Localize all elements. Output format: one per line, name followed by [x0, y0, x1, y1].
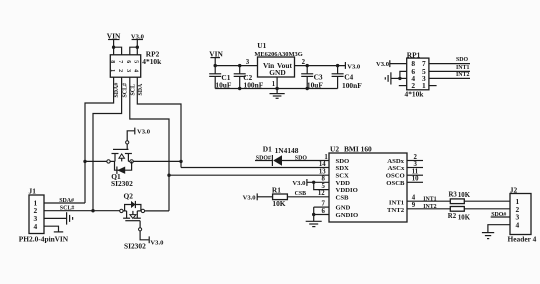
power V3.0 (Q2 gate): [149, 236, 164, 246]
svg-text:INT2: INT2: [456, 72, 469, 78]
svg-text:SDO#: SDO#: [491, 212, 506, 218]
wire Q2 gate to V3.0: [139, 221, 149, 240]
svg-text:BMI 160: BMI 160: [344, 144, 372, 153]
wire RP2 pin2 to SCL# vertical: [93, 77, 122, 211]
wire V3.0 to RP1 pin8: [390, 63, 407, 65]
connector J1 PH2.0-4pin: [29, 186, 45, 233]
svg-text:TNT2: TNT2: [387, 207, 405, 214]
resistor R3 10K: [449, 192, 471, 204]
svg-text:6: 6: [125, 60, 131, 63]
capacitor C3: [301, 66, 323, 90]
wire Q1 gate to V3.0: [126, 131, 135, 150]
svg-text:3: 3: [414, 161, 418, 168]
wire RP2 pin4 to SDA vertical: [137, 77, 181, 167]
svg-text:1: 1: [109, 69, 115, 72]
svg-text:VDDIO: VDDIO: [336, 187, 358, 194]
wire J2 pin4 to ground: [488, 225, 510, 233]
svg-text:10K: 10K: [272, 199, 285, 208]
ground (U2): [306, 221, 322, 226]
svg-text:J1: J1: [29, 186, 37, 195]
junction dot C2 bottom: [238, 87, 241, 90]
svg-text:V3.0: V3.0: [376, 61, 390, 68]
svg-text:ASCx: ASCx: [388, 165, 405, 172]
svg-text:V3.0: V3.0: [150, 239, 164, 246]
junction node SDA / Q1 drain: [179, 160, 182, 163]
wire SDX line: [181, 167, 329, 169]
svg-text:4: 4: [412, 195, 416, 202]
svg-text:INT1: INT1: [389, 200, 404, 207]
wire R2 to J2 pin2: [464, 208, 510, 210]
svg-text:7: 7: [322, 201, 326, 208]
svg-text:SCL#: SCL#: [60, 206, 74, 212]
svg-text:V3.0: V3.0: [347, 63, 361, 70]
svg-text:2: 2: [117, 69, 123, 72]
regulator U1 ME6206A30M3G: [254, 41, 302, 77]
junction dot C4 top: [336, 64, 339, 67]
svg-text:V3.0: V3.0: [243, 195, 257, 202]
junction dot C2 top: [238, 64, 241, 67]
svg-text:3: 3: [246, 59, 250, 66]
wire RP1 pin5 INT1: [429, 70, 470, 72]
svg-text:14: 14: [319, 161, 326, 168]
wire R3 to J2 pin1: [464, 200, 510, 202]
svg-text:SDO: SDO: [456, 57, 469, 63]
svg-text:4*10k: 4*10k: [142, 57, 162, 66]
wire Q1 drain: [133, 160, 181, 162]
power VIN (J1 pin4, downward): [54, 232, 69, 243]
svg-text:ASDx: ASDx: [387, 158, 404, 165]
svg-text:10: 10: [412, 176, 419, 183]
svg-text:9: 9: [412, 202, 416, 209]
svg-text:SDA#: SDA#: [114, 83, 120, 98]
power VIN (RP2 top): [107, 31, 121, 54]
diode D1 1N4148: [263, 144, 299, 166]
svg-text:VDD: VDD: [336, 180, 351, 187]
junction dot C3 top: [306, 64, 309, 67]
svg-text:SCX: SCX: [336, 173, 350, 180]
svg-text:SDA#: SDA#: [59, 198, 74, 204]
svg-text:10uF: 10uF: [307, 81, 324, 90]
IC U2 BMI160: [329, 144, 407, 222]
svg-text:V3.0: V3.0: [137, 129, 151, 136]
wire RP1 pin3 INT2: [429, 77, 470, 79]
svg-text:U2: U2: [330, 144, 339, 153]
wire D1 to U2 SDO: [282, 160, 329, 162]
svg-text:SDA: SDA: [138, 83, 144, 96]
svg-text:11: 11: [412, 169, 419, 176]
svg-text:3: 3: [125, 69, 131, 72]
capacitor C2: [234, 66, 264, 90]
svg-text:4*10k: 4*10k: [405, 90, 425, 99]
power V3.0 (Q1 gate): [135, 128, 151, 136]
wire VDDIO: [314, 182, 329, 189]
svg-text:5: 5: [133, 60, 139, 63]
wire J1 pin1 SDA#: [44, 202, 85, 204]
svg-text:8: 8: [109, 60, 115, 63]
junction dot RP1 gnd: [398, 77, 401, 80]
wire U2 pin4 INT1 to R3: [407, 200, 450, 202]
svg-text:SCL#: SCL#: [122, 83, 128, 97]
wire U1 pin2 to V3.0: [295, 65, 346, 67]
wire U2 ground stem: [313, 215, 315, 222]
wire VIN to RP2 pin 7: [114, 47, 122, 55]
connector J2 Header 4: [510, 186, 531, 235]
junction dot GNDIO: [312, 213, 315, 216]
svg-text:Header 4: Header 4: [508, 235, 537, 244]
junction dot C3 bottom: [306, 87, 309, 90]
junction dot V3.0 pins 6-5: [136, 46, 139, 49]
wire RP2 pin3 to SCL vertical: [130, 77, 169, 211]
svg-text:PH2.0-4pin: PH2.0-4pin: [19, 234, 55, 243]
junction dot GND stem: [275, 87, 278, 90]
svg-text:R2: R2: [448, 213, 457, 220]
svg-text:4: 4: [516, 220, 520, 229]
wire RP1 pin6: [400, 71, 407, 78]
wire Q1 source: [85, 160, 107, 162]
resistor R2 10K: [448, 207, 471, 222]
wire SDO# stub: [255, 160, 272, 162]
wire R1 to CSB: [287, 196, 329, 198]
svg-text:2: 2: [414, 154, 418, 161]
wire RP1 pin2 stub: [399, 85, 407, 87]
svg-text:12: 12: [318, 190, 325, 197]
svg-text:GNDIO: GNDIO: [336, 212, 359, 219]
svg-text:8: 8: [322, 176, 326, 183]
resistor pack RP2: [109, 55, 141, 77]
wire U2 pin9 INT2 to R2: [407, 208, 450, 210]
wire SCX line: [169, 174, 329, 176]
ground (RP1, sideways left): [385, 72, 391, 84]
junction dot VDD/VDDIO: [312, 181, 315, 184]
power V3.0 (U2 VDD): [292, 179, 307, 187]
svg-text:OSCO: OSCO: [386, 173, 405, 180]
svg-text:VIN: VIN: [55, 234, 69, 243]
svg-text:GND: GND: [336, 205, 351, 212]
power V3.0 (R1): [243, 193, 258, 201]
wire J1 pin3 to ground: [44, 217, 66, 219]
svg-text:SDX: SDX: [336, 165, 350, 172]
svg-text:6: 6: [322, 208, 326, 215]
ground (J2): [482, 233, 494, 239]
junction node SDA# / Q1 source: [83, 160, 86, 163]
wire U2 pin2 stub: [407, 160, 423, 162]
wire SDO# to J2 pin3: [491, 216, 510, 218]
svg-text:INT2: INT2: [423, 204, 436, 210]
wire GND stub (U2 pin7): [314, 206, 329, 208]
wire U2 pin10 stub: [407, 181, 423, 183]
junction node SCL / SCX: [167, 174, 170, 177]
svg-text:OSCB: OSCB: [386, 180, 405, 187]
svg-text:SDO: SDO: [336, 158, 350, 165]
svg-text:1: 1: [272, 81, 276, 88]
svg-text:GND: GND: [269, 68, 285, 77]
power V3.0 (U1 output): [345, 62, 361, 70]
svg-text:7: 7: [117, 60, 123, 63]
svg-text:13: 13: [319, 169, 326, 176]
svg-text:U1: U1: [257, 41, 266, 50]
wire SCL# J1 to Q2: [44, 210, 120, 212]
capacitor C1: [209, 66, 232, 90]
transistor Q1 SI2302: [107, 149, 134, 174]
wire U2 pin3 stub: [407, 167, 423, 169]
ground (U1): [270, 94, 285, 99]
wire V3.0 to VDD: [307, 181, 329, 183]
svg-text:SI2302: SI2302: [124, 242, 146, 251]
svg-text:INT1: INT1: [423, 196, 436, 202]
wire U2 pin11 stub: [407, 174, 423, 176]
wire VIN rail to U1 pin3: [215, 65, 257, 67]
wire GNDIO stub (U2 pin6): [314, 207, 329, 214]
svg-text:R3: R3: [449, 192, 458, 199]
svg-text:R1: R1: [272, 185, 281, 194]
svg-text:2: 2: [302, 59, 306, 66]
wire RP1 pin7 SDO: [429, 63, 470, 65]
wire U1 GND stem: [276, 77, 278, 94]
power V3.0 (RP1 pin8): [376, 60, 390, 68]
wire RP2 pin1 to SDA# vertical: [85, 77, 114, 203]
junction node SCL# / Q2: [91, 209, 94, 212]
svg-text:5: 5: [322, 183, 326, 190]
transistor Q2 SI2302: [120, 201, 145, 221]
wire RP1 pin1 stub: [429, 85, 437, 87]
svg-text:SDO#: SDO#: [256, 155, 271, 161]
svg-text:INT1: INT1: [456, 65, 469, 71]
capacitor C4: [332, 66, 363, 90]
wire J1 pin4 to VIN: [44, 226, 59, 232]
svg-text:1: 1: [324, 154, 328, 161]
junction dot VIN pins 8-7: [112, 46, 115, 49]
svg-text:100nF: 100nF: [342, 81, 362, 90]
svg-text:4: 4: [34, 222, 38, 231]
svg-text:SCL: SCL: [130, 84, 136, 96]
svg-text:1N4148: 1N4148: [275, 146, 299, 155]
svg-text:4: 4: [133, 69, 139, 72]
power VIN (U1 input): [209, 50, 223, 66]
svg-text:10K: 10K: [458, 215, 471, 222]
svg-text:Q2: Q2: [124, 192, 134, 201]
wire RP1 pin4 to ground: [391, 77, 406, 79]
svg-text:SI2302: SI2302: [111, 179, 133, 188]
wire V3.0 to R1: [257, 196, 272, 198]
ground (J1 pin3, sideways): [67, 212, 73, 224]
svg-text:CSB: CSB: [336, 194, 350, 201]
svg-text:V3.0: V3.0: [292, 180, 306, 187]
svg-text:SDO: SDO: [295, 155, 308, 161]
resistor pack RP1: [407, 51, 429, 90]
resistor R1 10K: [272, 185, 288, 207]
svg-text:10K: 10K: [458, 192, 471, 199]
wire Q2 drain to SCL: [145, 210, 169, 212]
svg-text:D1: D1: [263, 144, 272, 153]
junction dot C1 top: [214, 64, 217, 67]
bottom ground rail: [215, 88, 337, 90]
power V3.0 (RP2 top): [131, 33, 145, 54]
wire V3.0 to RP2 pin 6: [130, 47, 138, 55]
svg-text:CSB: CSB: [295, 191, 307, 197]
